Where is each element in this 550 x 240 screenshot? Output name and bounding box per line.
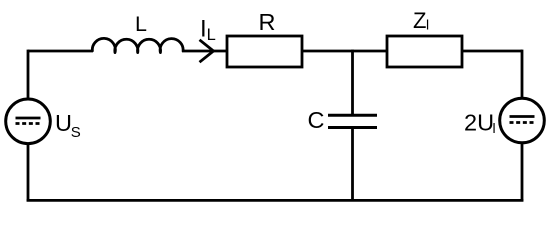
inductor L [92,38,183,52]
wire right vertical top [521,50,524,100]
label I_L [200,16,216,45]
svg-text:L: L [207,26,216,44]
svg-text:l: l [493,120,496,136]
capacitor C [328,115,377,127]
svg-text:L: L [135,12,147,36]
impedance Zl [387,36,462,67]
source 2Ul [500,98,545,143]
wire resistor to impedance [302,50,387,53]
wire top-left horizontal [28,50,93,53]
node capacitor branch (top tee) [351,50,354,116]
label Z_l [413,8,429,33]
wire left vertical bottom [27,143,30,201]
svg-text:C: C [308,107,325,133]
wire impedance to top-right corner [462,50,522,53]
resistor R [227,36,302,67]
wire inductor to resistor [182,50,227,53]
svg-text:U: U [55,110,72,136]
bottom wire [27,199,524,202]
label 2U_l [464,110,496,136]
svg-text:l: l [426,17,429,33]
current arrow IL [200,40,214,62]
wire right vertical bottom [521,142,524,201]
svg-text:2U: 2U [464,110,494,136]
svg-text:S: S [71,124,81,141]
wire capacitor to bottom rail [351,128,354,201]
label U_S [55,110,81,141]
wire left vertical top [27,50,30,100]
svg-text:R: R [259,9,276,35]
source US [6,99,51,144]
svg-text:Z: Z [413,8,426,33]
